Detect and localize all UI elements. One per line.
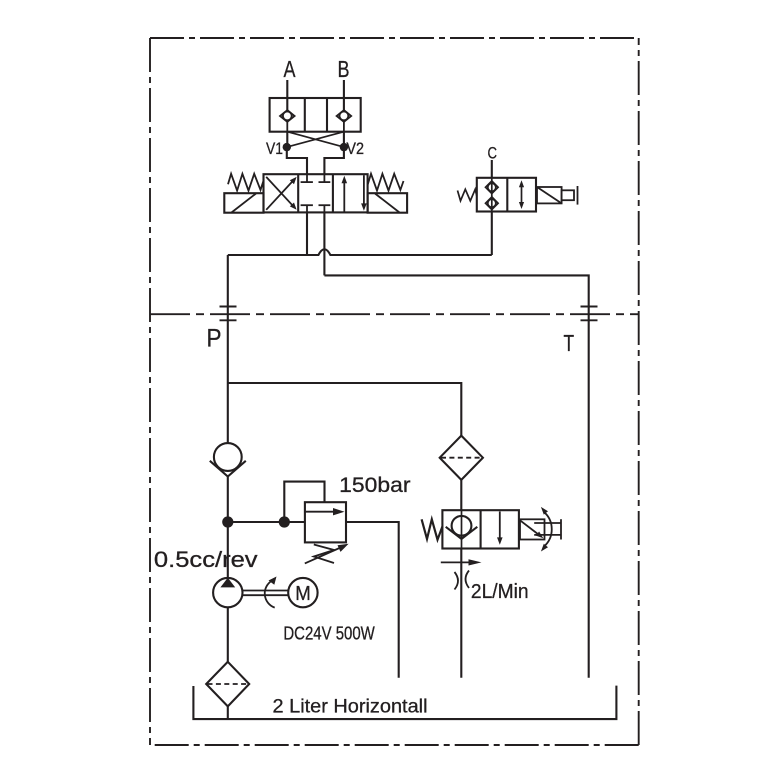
svg-text:V1: V1 (266, 139, 283, 158)
svg-text:M: M (295, 583, 311, 605)
label W (spring zigzag) (422, 519, 443, 539)
svg-text:0.5cc/rev: 0.5cc/rev (154, 547, 258, 572)
valve C body (2/2 cartridge) (477, 178, 536, 212)
svg-text:B: B (338, 56, 350, 82)
svg-text:A: A (284, 56, 297, 82)
wire node to relief valve (228, 521, 305, 523)
T port manifold bars (581, 307, 598, 321)
wire B to node V2 (343, 132, 345, 147)
manifold boundary line (dash-dot) (150, 313, 639, 315)
wire P riser (227, 255, 229, 443)
U1 left solenoid (224, 193, 263, 213)
valve C lower check (diamond + circle) (486, 197, 499, 210)
valve C double arrow (519, 180, 524, 209)
wire filter to W valve (460, 480, 462, 510)
svg-text:DC24V 500W: DC24V 500W (283, 624, 374, 644)
relief valve spring (314, 545, 334, 564)
wire V2 to valve port B (324, 147, 344, 174)
return filter F2 (diamond) (440, 436, 483, 480)
svg-text:2L/Min: 2L/Min (471, 581, 529, 603)
P port manifold bars (220, 307, 237, 321)
node junction dot 1 (222, 516, 233, 527)
pump shaft (243, 591, 289, 596)
wire C to valve (491, 160, 493, 178)
shaft rotation arrow (265, 577, 277, 608)
orifice symbol left arc (455, 572, 459, 590)
svg-text:2 Liter Horizontall: 2 Liter Horizontall (273, 696, 428, 718)
U1 right position arrows (342, 175, 367, 211)
relief valve pilot wire (284, 482, 324, 522)
enclosure boundary (dash-dot frame) (150, 38, 639, 745)
orifice symbol right arc (466, 571, 470, 589)
4/3 directional valve U1 body (264, 174, 368, 212)
U1 right return spring (368, 174, 404, 191)
W valve down arrow (497, 512, 503, 545)
wire V1 to valve port A (287, 147, 307, 174)
node V1 (283, 143, 291, 151)
wire W valve down to tank (460, 549, 462, 678)
pump P1 (213, 578, 242, 608)
wire T riser to tank (588, 306, 590, 678)
node junction dot 2 (279, 516, 290, 527)
wire filter to tank (227, 706, 229, 719)
pilot cross line A-to-V2 (287, 132, 344, 147)
svg-text:C: C (488, 144, 498, 163)
svg-text:V2: V2 (346, 139, 364, 158)
U1 left return spring (228, 174, 263, 191)
U1 left position crossed arrows (266, 177, 296, 210)
dual pilot-operated check valve block (270, 98, 361, 132)
relief valve adjustment arrow (305, 544, 349, 564)
check valve CV1 on P line (210, 443, 246, 476)
wire P manifold line with hop (228, 249, 492, 255)
valve C upper check (diamond + circle) (486, 181, 499, 194)
valve C spring (458, 189, 477, 201)
svg-text:T: T (564, 330, 575, 356)
U1 right solenoid (368, 193, 408, 213)
W valve knob plunger (534, 523, 560, 535)
U1 center position blocked ports (301, 174, 331, 212)
check valve CV-B (diamond + circle) (337, 110, 352, 132)
valve C solenoid plunger (562, 190, 574, 200)
wire valve port P down (306, 212, 308, 255)
suction filter F1 (diamond) (206, 662, 249, 707)
motor M1 (288, 578, 317, 607)
wire A to node V1 (286, 132, 288, 147)
wire C valve down (491, 212, 493, 256)
wire pressure branch to right (228, 383, 461, 436)
valve C end bar (577, 186, 579, 205)
svg-text:150bar: 150bar (339, 473, 410, 497)
valve C flow path wire (491, 178, 493, 212)
valve C solenoid (537, 187, 562, 203)
relief valve internal arrow (305, 508, 345, 515)
relief valve outlet wire (346, 522, 399, 678)
wire A (286, 80, 288, 112)
wire check valve to pump (227, 477, 229, 579)
W valve knob end bar (560, 519, 562, 539)
wire valve port T down (with crossover) (323, 212, 325, 275)
tank (reservoir) (193, 686, 616, 720)
W valve check (circle on seat) (446, 516, 478, 539)
svg-text:P: P (207, 325, 222, 353)
pilot cross line B-to-V1 (287, 132, 344, 147)
wire pump to suction filter (227, 607, 229, 662)
wire B (343, 80, 345, 112)
check valve CV-A (diamond + circle) (280, 110, 295, 132)
relief valve RV1 body (305, 502, 346, 542)
W valve knob actuator box (520, 519, 545, 539)
W valve body (442, 510, 519, 548)
flow direction arrow (441, 559, 482, 565)
W valve flow wire (461, 510, 463, 548)
W valve rotate arc arrows (541, 507, 552, 552)
wire T manifold line (324, 275, 588, 306)
node V2 (340, 143, 348, 151)
